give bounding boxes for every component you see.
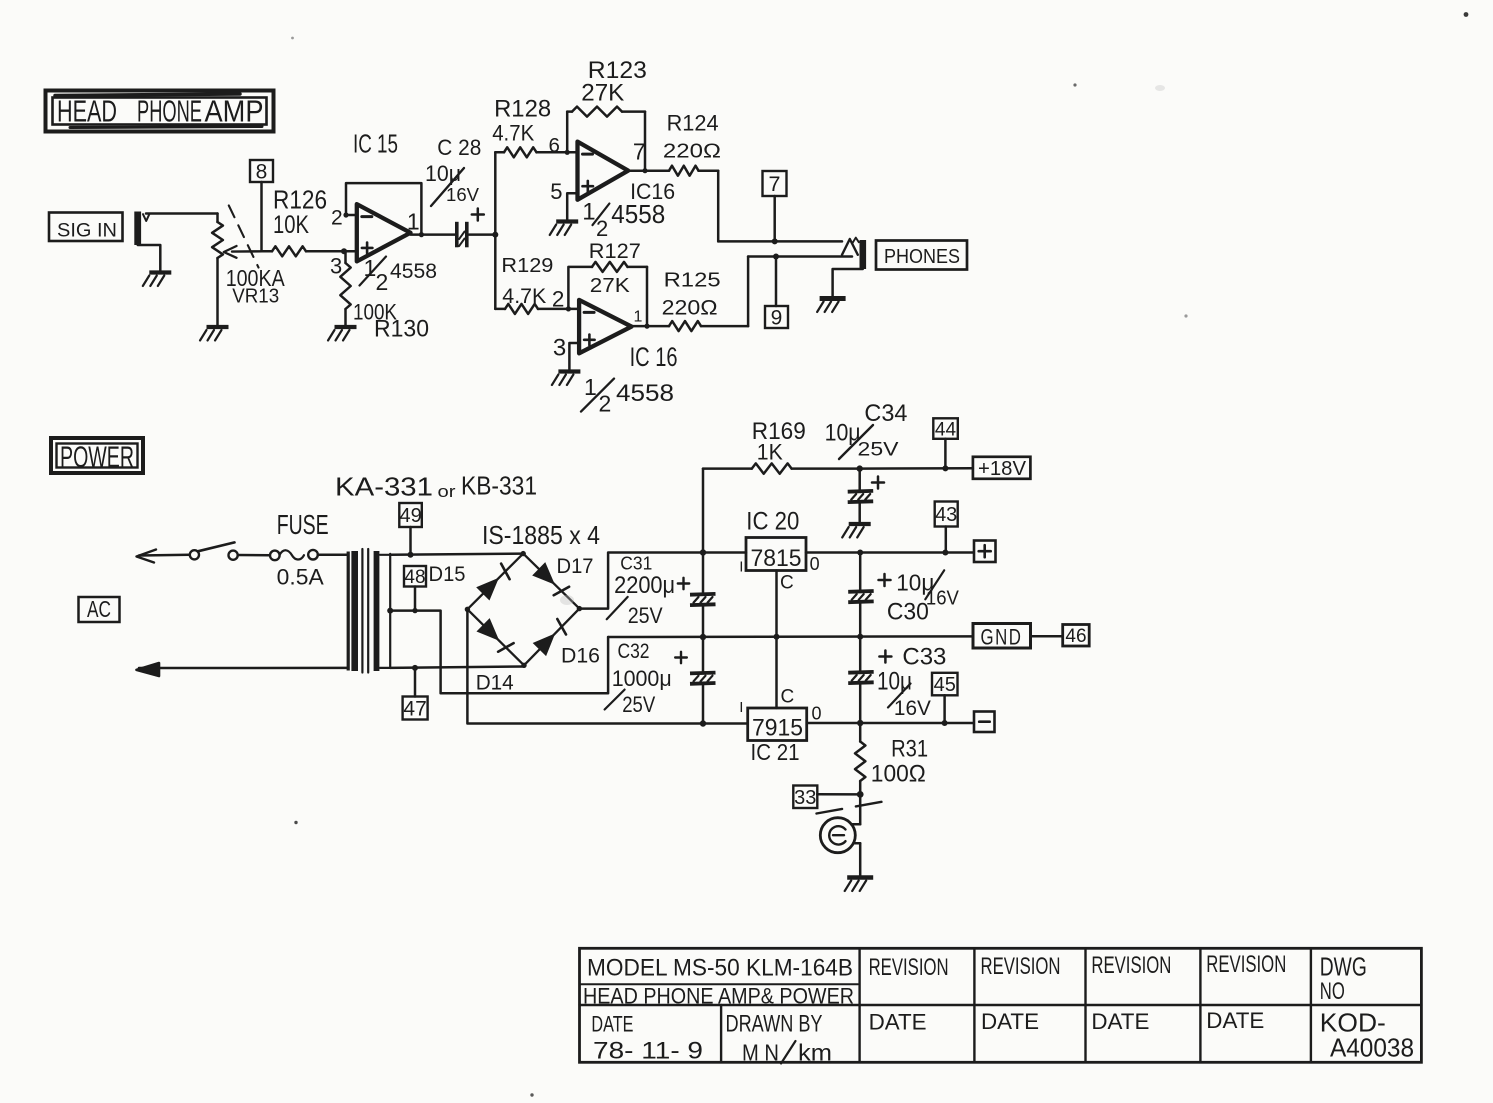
wire secondary bottom: [390, 667, 524, 668]
svg-text:4558: 4558: [390, 260, 437, 283]
node 46: [1063, 625, 1090, 648]
svg-text:or: or: [438, 482, 456, 501]
wire switch to fuse: [238, 554, 270, 557]
resistor R126: [262, 185, 345, 257]
junction unreg plus: [700, 549, 706, 555]
section label POWER: [51, 438, 143, 474]
junction 43: [942, 550, 948, 556]
wire plus18 rail: [860, 467, 973, 470]
svg-text:D15: D15: [429, 563, 466, 586]
svg-text:5: 5: [550, 179, 562, 204]
node 47: [403, 665, 428, 721]
svg-text:2: 2: [599, 391, 612, 417]
svg-text:REVISION: REVISION: [1206, 951, 1286, 978]
junction minus C-rail: [700, 720, 706, 726]
section label HEAD PHONE AMP: [46, 91, 274, 132]
svg-text:25V: 25V: [628, 603, 663, 628]
svg-text:0: 0: [812, 703, 822, 723]
node 43: [935, 502, 958, 553]
diode D16: [534, 619, 600, 668]
capacitor C31: [607, 553, 716, 628]
resistor R127 feedback: [568, 239, 647, 326]
svg-text:R127: R127: [589, 239, 641, 263]
junction R31 top: [857, 720, 863, 726]
junction gnd C30: [857, 634, 863, 640]
svg-text:78- 11- 9: 78- 11- 9: [593, 1038, 703, 1065]
resistor R128: [492, 95, 567, 157]
svg-text:7815: 7815: [751, 545, 802, 572]
wire to plus input IC15: [344, 250, 357, 253]
diode D17: [534, 555, 594, 595]
diode D15: [429, 563, 510, 599]
junction output IC16b: [644, 324, 649, 329]
svg-text:45: 45: [934, 674, 956, 696]
capacitor C33: [848, 637, 946, 723]
svg-text:DATE: DATE: [1091, 1009, 1149, 1034]
svg-text:I: I: [739, 559, 743, 576]
resistor R129: [495, 255, 568, 314]
svg-text:C 28: C 28: [437, 135, 481, 160]
AC line top arrow: [137, 550, 190, 563]
svg-text:D16: D16: [561, 645, 600, 668]
svg-text:2: 2: [376, 269, 389, 295]
svg-text:2200μ: 2200μ: [614, 572, 675, 599]
svg-text:3: 3: [330, 254, 342, 279]
svg-text:2: 2: [331, 206, 343, 229]
node 8: [250, 160, 273, 251]
svg-text:C34: C34: [864, 400, 907, 427]
bridge rectifier edges: [465, 551, 582, 668]
svg-text:25V: 25V: [858, 440, 899, 461]
node 9: [765, 254, 788, 330]
ground sigin: [143, 273, 172, 287]
svg-text:100Ω: 100Ω: [871, 761, 926, 788]
jack J-sigin: [134, 212, 149, 246]
svg-text:1: 1: [582, 198, 595, 225]
scan speckles: [291, 12, 1468, 1097]
svg-text:27K: 27K: [581, 79, 625, 106]
resistor R124: [663, 110, 721, 175]
wire branch vertical: [494, 152, 497, 309]
svg-text:IC16: IC16: [630, 179, 675, 204]
wire jack to pot: [146, 212, 218, 215]
svg-text:HEAD: HEAD: [57, 94, 117, 129]
svg-text:47: 47: [403, 698, 426, 721]
wire jack sleeve phones: [833, 269, 863, 296]
svg-text:R128: R128: [494, 95, 551, 122]
label IS-1885 x 4: [482, 520, 600, 550]
junction minus IC15: [343, 212, 348, 217]
svg-text:+18V: +18V: [978, 457, 1026, 480]
feedback wire IC15: [346, 183, 421, 235]
svg-text:27K: 27K: [590, 275, 631, 297]
potentiometer VR13: [212, 214, 285, 326]
dashed switch line: [817, 801, 890, 814]
label 1/2 4558 IC16a: [582, 198, 665, 241]
capacitor C28: [425, 135, 484, 248]
svg-text:C32: C32: [618, 640, 650, 663]
svg-text:R125: R125: [664, 269, 721, 291]
resistor R169: [703, 418, 860, 474]
svg-text:3: 3: [553, 334, 566, 361]
title text dwg no: [1320, 951, 1414, 1062]
svg-text:DRAWN BY: DRAWN BY: [726, 1011, 823, 1038]
svg-text:46: 46: [1065, 626, 1086, 647]
wire secondary top: [390, 554, 523, 555]
diode D14: [476, 620, 514, 695]
junction pin2: [566, 306, 571, 311]
svg-text:M N: M N: [742, 1040, 779, 1066]
junction gnd C-rail: [700, 634, 706, 640]
switch S1: [190, 542, 238, 559]
wire output IC16a: [628, 169, 669, 172]
AC line bottom arrow: [137, 663, 349, 676]
svg-text:44: 44: [935, 419, 957, 440]
junction 45: [942, 720, 948, 726]
jack PHONES contacts: [842, 238, 859, 255]
wire C28 to branch: [469, 233, 495, 236]
svg-text:HEAD PHONE AMP& POWER: HEAD PHONE AMP& POWER: [583, 984, 854, 1009]
svg-text:1000μ: 1000μ: [612, 666, 672, 691]
junction C30 top: [857, 550, 863, 556]
svg-text:8: 8: [256, 161, 268, 184]
svg-text:0: 0: [810, 554, 820, 574]
title text model: [583, 955, 854, 1009]
op-amp IC16 lower: [553, 300, 678, 372]
svg-text:16V: 16V: [926, 587, 960, 609]
wire output IC15: [411, 233, 456, 236]
capacitor C34: [825, 400, 908, 521]
title block grid: [580, 948, 1422, 1062]
svg-text:REVISION: REVISION: [869, 954, 949, 981]
node label SIG IN: [49, 213, 123, 242]
wire R124 down: [717, 171, 720, 242]
node 45: [932, 673, 958, 723]
fuse F1 0.5A: [270, 509, 329, 589]
svg-text:IS-1885 x 4: IS-1885 x 4: [482, 520, 600, 550]
svg-text:1K: 1K: [757, 440, 783, 465]
wire plus input IC16a: [567, 193, 577, 219]
svg-text:6: 6: [549, 134, 560, 157]
junction branch: [492, 232, 498, 238]
node label PHONES: [876, 241, 967, 270]
wire minus input IC16b: [568, 308, 579, 311]
svg-text:PHONE: PHONE: [137, 94, 202, 129]
svg-text:FUSE: FUSE: [277, 509, 329, 540]
resistor R31: [855, 723, 928, 794]
capacitor C32: [605, 640, 716, 717]
svg-text:AMP: AMP: [205, 94, 264, 129]
dashed wiper axis: [229, 206, 259, 268]
svg-text:km: km: [798, 1040, 832, 1066]
svg-text:C33: C33: [902, 643, 946, 670]
svg-text:1: 1: [634, 308, 643, 325]
wire 7915 out: [807, 722, 973, 725]
svg-text:VR13: VR13: [232, 285, 279, 307]
svg-text:NO: NO: [1320, 978, 1345, 1005]
svg-text:7: 7: [633, 138, 646, 164]
svg-text:KB-331: KB-331: [461, 471, 537, 501]
wire bridge minus: [467, 609, 747, 723]
wire gnd rail right: [608, 635, 973, 638]
svg-text:4558: 4558: [616, 380, 674, 407]
svg-text:9: 9: [771, 307, 783, 330]
wire plus input IC16b: [569, 343, 579, 370]
op-amp IC16 upper: [549, 134, 676, 204]
svg-text:A40038: A40038: [1330, 1032, 1414, 1062]
wire R125 up: [747, 257, 750, 327]
svg-text:IC 15: IC 15: [353, 129, 398, 159]
svg-text:C31: C31: [620, 553, 652, 574]
lamp PL1: [820, 794, 860, 875]
wire minus input IC15: [346, 214, 357, 217]
svg-text:PHONES: PHONES: [884, 245, 960, 268]
jack PHONES bar: [860, 240, 867, 269]
junction lamp: [857, 791, 864, 798]
wire C-common: [774, 571, 780, 709]
node label GND: [973, 624, 1031, 650]
ground phones: [817, 299, 846, 313]
svg-text:R130: R130: [374, 316, 429, 343]
title text revision cells: [869, 951, 1287, 1034]
wire jack sleeve: [138, 245, 161, 271]
svg-text:DATE: DATE: [981, 1009, 1039, 1034]
svg-text:0.5A: 0.5A: [277, 564, 324, 589]
svg-text:POWER: POWER: [60, 441, 134, 474]
svg-text:49: 49: [399, 505, 421, 527]
ground C34: [842, 524, 871, 538]
svg-text:4558: 4558: [611, 201, 665, 229]
svg-text:2: 2: [552, 287, 565, 312]
svg-text:220Ω: 220Ω: [662, 297, 718, 320]
wiper arrow VR13: [224, 246, 263, 258]
svg-text:220Ω: 220Ω: [663, 140, 721, 163]
svg-text:10K: 10K: [273, 211, 309, 239]
wire minus input IC16a: [567, 151, 577, 154]
svg-text:4.7K: 4.7K: [492, 121, 534, 146]
transformer T1 KA-331: [335, 471, 537, 673]
regulator IC21 7915: [739, 686, 821, 765]
svg-text:IC 20: IC 20: [746, 507, 799, 535]
svg-text:R124: R124: [667, 110, 719, 135]
label 1/2 4558 IC15: [360, 255, 438, 295]
svg-text:REVISION: REVISION: [1091, 952, 1171, 979]
capacitor C30: [848, 553, 959, 638]
svg-text:2: 2: [596, 216, 608, 241]
node 49: [399, 503, 422, 558]
wire C31 to gnd rail: [702, 607, 705, 672]
wire center tap: [387, 608, 608, 694]
wire GND to 46: [1031, 635, 1063, 638]
svg-text:IC 21: IC 21: [751, 739, 800, 765]
svg-text:REVISION: REVISION: [981, 953, 1061, 980]
resistor R130: [340, 251, 429, 342]
svg-text:GND: GND: [981, 625, 1023, 650]
node label +18V: [973, 457, 1031, 480]
op-amp IC15: [330, 129, 420, 279]
svg-text:7: 7: [769, 172, 781, 196]
svg-text:D17: D17: [557, 555, 594, 578]
title text drawn by: [726, 1011, 833, 1066]
wire bridge plus: [579, 553, 746, 609]
svg-text:10μ: 10μ: [425, 161, 461, 186]
ground VR13: [200, 327, 229, 341]
svg-text:7915: 7915: [752, 715, 803, 742]
svg-text:16V: 16V: [446, 185, 479, 205]
node label minus out: [974, 712, 995, 733]
title text date cell: [591, 1012, 703, 1065]
ground lamp: [845, 878, 874, 892]
resistor R125: [662, 269, 749, 331]
svg-text:25V: 25V: [622, 692, 655, 717]
junction pin6: [565, 150, 570, 155]
node label AC: [79, 596, 120, 622]
ground IC16a pin5: [550, 222, 579, 236]
ground IC16b pin3: [552, 372, 581, 386]
svg-text:43: 43: [935, 504, 957, 526]
wire fuse to transformer: [318, 554, 348, 557]
svg-text:C: C: [780, 572, 794, 593]
svg-text:C30: C30: [887, 598, 929, 625]
svg-text:DATE: DATE: [591, 1012, 633, 1037]
label 1/2 4558 IC16b: [581, 374, 674, 417]
svg-text:33: 33: [794, 787, 816, 809]
wire output IC16b: [632, 325, 670, 328]
svg-text:R31: R31: [891, 736, 928, 763]
junction pin3 node: [341, 248, 347, 254]
resistor R123 feedback: [567, 57, 647, 171]
svg-text:I: I: [739, 699, 743, 716]
wire lower phones: [748, 255, 852, 258]
junction output IC16a: [642, 168, 647, 173]
wire C32 to minus rail: [702, 685, 705, 723]
wire unreg rail upper: [702, 469, 705, 593]
svg-text:DATE: DATE: [869, 1009, 927, 1034]
svg-text:48: 48: [404, 567, 425, 588]
svg-text:4.7K: 4.7K: [502, 284, 547, 308]
svg-text:IC 16: IC 16: [630, 342, 678, 372]
node label plus out: [974, 541, 996, 563]
node 7: [763, 171, 787, 244]
svg-text:C: C: [781, 686, 795, 707]
svg-text:MODEL MS-50 KLM-164B: MODEL MS-50 KLM-164B: [587, 955, 853, 982]
svg-text:R126: R126: [273, 185, 327, 215]
svg-text:D14: D14: [476, 672, 514, 695]
svg-text:DWG: DWG: [1320, 951, 1367, 981]
svg-text:KA-331: KA-331: [335, 472, 433, 502]
svg-text:SIG IN: SIG IN: [57, 219, 117, 241]
wire upper phones: [718, 240, 842, 243]
wire 7815 out: [806, 551, 973, 554]
svg-text:1: 1: [407, 209, 420, 235]
svg-text:R129: R129: [501, 255, 553, 277]
svg-text:DATE: DATE: [1206, 1008, 1264, 1033]
svg-text:AC: AC: [87, 596, 111, 622]
node 44: [933, 418, 958, 471]
node 33: [793, 786, 860, 810]
svg-text:16V: 16V: [894, 697, 931, 720]
junction gnd C-wire: [774, 634, 780, 640]
junction output IC15: [419, 232, 424, 237]
node 48: [404, 566, 426, 611]
ground R130: [328, 327, 357, 341]
regulator IC20 7815: [739, 507, 819, 593]
svg-text:10μ: 10μ: [877, 668, 912, 696]
